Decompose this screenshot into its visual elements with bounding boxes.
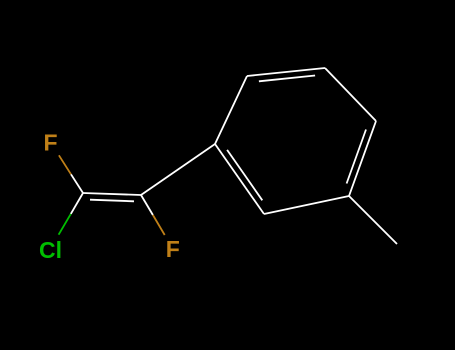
- double bond C1=C2 inner line: [90, 200, 134, 202]
- bond C2-F2 (carbon half, white): [141, 195, 153, 215]
- bond C1-F1 (fluorine half, orange): [59, 155, 71, 174]
- bond C1-F1 (carbon half, white): [71, 174, 83, 193]
- bond C2-F2 (fluorine half, orange): [153, 215, 165, 235]
- svg-text:F: F: [43, 129, 57, 155]
- bond C2-ring (to ipso V1): [141, 144, 215, 195]
- methyl bond from V5: [349, 196, 397, 244]
- ring edge V1-V2: [215, 76, 247, 144]
- ring edge V5-V6: [264, 196, 349, 214]
- aromatic inner line V6-V1: [227, 150, 262, 200]
- bond C1-Cl (carbon half, white): [71, 193, 83, 214]
- ring edge V4-V5: [349, 121, 376, 196]
- aromatic inner line V2-V3: [259, 76, 315, 82]
- svg-text:F: F: [166, 236, 180, 262]
- aromatic inner line V4-V5: [347, 130, 366, 184]
- bond C1-Cl (chlorine half, green): [59, 214, 71, 235]
- ring edge V2-V3: [247, 68, 325, 76]
- double bond C1=C2 main line: [83, 193, 141, 195]
- ring edge V3-V4: [325, 68, 376, 121]
- svg-text:Cl: Cl: [39, 237, 62, 263]
- ring edge V6-V1: [215, 144, 264, 214]
